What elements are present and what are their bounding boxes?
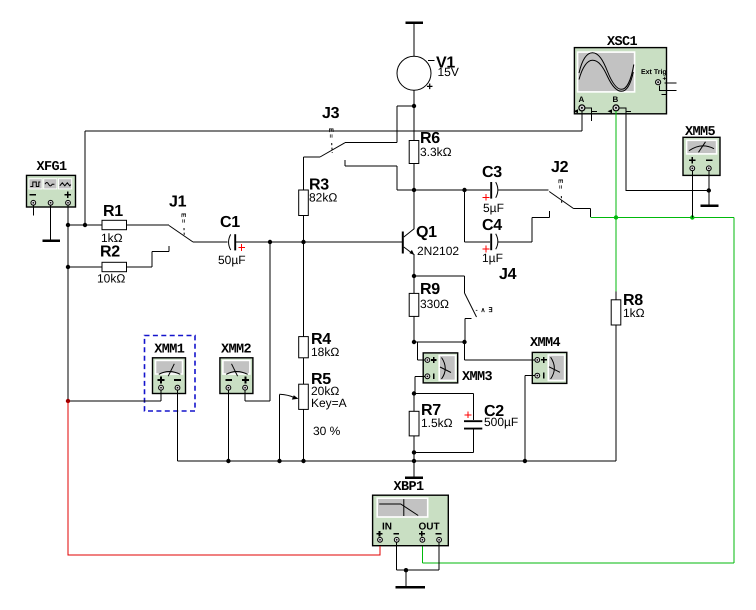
wire XBP1 IN minus to ground bbox=[397, 542, 439, 570]
wire R9 bottom to node bbox=[413, 316, 415, 342]
wire XMM3 plus to node342 bbox=[418, 342, 426, 360]
svg-text:J3: J3 bbox=[322, 105, 340, 122]
wire collector node down to Q1 collector bbox=[413, 190, 415, 229]
multimeter XMM3 bbox=[423, 353, 492, 385]
svg-text:+: + bbox=[427, 81, 433, 93]
multimeter XMM4 bbox=[530, 336, 567, 383]
wire scope A plus down to top bus bbox=[581, 111, 583, 131]
ground (XBP1) bbox=[396, 570, 426, 587]
multimeter XMM1 bbox=[153, 343, 186, 394]
node green junction XMM5 bbox=[690, 215, 694, 219]
wire XMM1 plus to left rail bbox=[68, 390, 161, 401]
ground (center bottom) bbox=[405, 461, 423, 478]
node R2 tap bbox=[66, 265, 70, 269]
svg-text:+: + bbox=[663, 76, 667, 83]
svg-text:J4: J4 bbox=[499, 266, 517, 283]
svg-text:XMM3: XMM3 bbox=[462, 370, 493, 385]
polarity C3 bbox=[483, 194, 490, 201]
oscilloscope XSC1 bbox=[574, 35, 677, 114]
svg-text:C4: C4 bbox=[482, 217, 502, 234]
polarity C1 bbox=[238, 244, 245, 251]
transistor Q1 2N2102 bbox=[402, 224, 460, 258]
wire R1 to J1 bbox=[127, 224, 170, 226]
selection box around XMM1 bbox=[145, 336, 196, 412]
wire green down to R8 bbox=[615, 218, 617, 292]
wire XFG1 minus stub bbox=[32, 205, 34, 216]
wire C4 right plate to step bbox=[498, 241, 533, 243]
wire scope B minus to XMM5 net bbox=[619, 108, 709, 191]
svg-text:OUT: OUT bbox=[419, 522, 440, 533]
node C4 branch tap bbox=[462, 188, 466, 192]
resistor R3 82k bbox=[299, 177, 338, 216]
resistor R6 3.3k bbox=[409, 130, 451, 164]
bode plotter XBP1 bbox=[373, 480, 449, 546]
svg-text:A: A bbox=[579, 95, 585, 104]
wire R4 to R5 bbox=[303, 358, 305, 384]
polarity C2 bbox=[465, 412, 472, 419]
wire C2 bottom to R7 bottom bbox=[414, 451, 474, 453]
wire C1 to Q1 base bbox=[235, 241, 402, 243]
node XMM4 bus bbox=[523, 459, 527, 463]
switch J1 bbox=[169, 194, 193, 243]
wire C3 to J2 bbox=[498, 189, 549, 191]
wire R7 bottom node to bus bbox=[413, 452, 415, 461]
wire XFG1 common to ground bbox=[50, 205, 52, 240]
svg-text:330Ω: 330Ω bbox=[420, 297, 449, 311]
node R7 bottom junction bbox=[412, 450, 416, 454]
wire top bus to scope A bbox=[85, 130, 582, 132]
node R5 bus bbox=[301, 459, 305, 463]
svg-text:82kΩ: 82kΩ bbox=[309, 191, 337, 205]
wire C4 left to collector net bbox=[465, 190, 491, 242]
svg-text:C3: C3 bbox=[482, 164, 502, 181]
svg-text:30 %: 30 % bbox=[313, 424, 341, 438]
wire XMM4 plus to node342 bbox=[465, 342, 535, 360]
svg-text:E =: E = bbox=[557, 179, 564, 189]
resistor R9 330 ohm bbox=[409, 276, 449, 316]
wire XMM5 minus to ground bbox=[708, 171, 710, 205]
svg-text:XMM1: XMM1 bbox=[154, 343, 185, 358]
capacitor C4 1uF bbox=[482, 217, 503, 265]
svg-text:C1: C1 bbox=[220, 214, 240, 231]
wire XMM2 plus up to C1 node bbox=[245, 242, 270, 401]
svg-text:18kΩ: 18kΩ bbox=[311, 345, 339, 359]
multimeter XMM2 bbox=[220, 343, 253, 394]
node VCC junction bbox=[412, 104, 416, 108]
polarity C4 bbox=[483, 246, 490, 253]
node XMM2 bus bbox=[226, 459, 230, 463]
wire J2 blade to green output bbox=[574, 209, 591, 217]
node base/R3 tap bbox=[301, 240, 305, 244]
red wire input to XBP1 bbox=[68, 402, 381, 556]
svg-text:10kΩ: 10kΩ bbox=[97, 272, 125, 286]
resistor R4 18k bbox=[299, 331, 340, 359]
resistor R2 10k bbox=[68, 244, 127, 286]
svg-text:50µF: 50µF bbox=[218, 253, 246, 267]
node emitter junction bbox=[412, 274, 416, 278]
svg-text:R9: R9 bbox=[420, 281, 440, 298]
capacitor C3 5uF bbox=[482, 164, 504, 215]
green wire bottom to XBP1 out bbox=[422, 546, 734, 563]
node green junction B bbox=[614, 215, 618, 219]
node XMM5 minus junction bbox=[707, 188, 711, 192]
node R1 tap bbox=[66, 223, 70, 227]
potentiometer R5 20k bbox=[280, 371, 347, 438]
node R9 bottom junction bbox=[412, 340, 416, 344]
wire C4 to J2 lower contact bbox=[532, 218, 550, 242]
svg-text:IN: IN bbox=[382, 522, 392, 533]
ground (top, above V1) bbox=[406, 23, 424, 57]
wire J3 to R3 bbox=[304, 157, 321, 190]
svg-text:Q1: Q1 bbox=[416, 224, 437, 241]
node collector junction bbox=[412, 188, 416, 192]
resistor R8 1k bbox=[611, 292, 644, 325]
wire J3 lower throw to collector node bbox=[345, 166, 414, 190]
wire J4 bottom contact down bbox=[464, 319, 466, 343]
svg-text:J1: J1 bbox=[169, 194, 187, 211]
node wiper bus bbox=[277, 459, 281, 463]
wire J1 to C1 bbox=[193, 241, 228, 243]
node bus center junction bbox=[412, 459, 416, 463]
wire scope A minus stub bbox=[585, 108, 592, 121]
svg-text:XFG1: XFG1 bbox=[37, 160, 68, 175]
wire J3 common to supply bbox=[345, 106, 414, 143]
wire left rail up to top bus bbox=[84, 131, 86, 225]
wire XMM4 minus to bus bbox=[525, 376, 535, 461]
wire XMM3 minus to R7 node bbox=[415, 376, 425, 393]
wire R7/C2 top bbox=[414, 393, 474, 395]
capacitor C2 500uF bbox=[464, 394, 518, 453]
wire R2 to J1 lower contact bbox=[127, 246, 170, 267]
svg-text:1kΩ: 1kΩ bbox=[623, 306, 645, 320]
function generator XFG1 bbox=[27, 160, 76, 207]
node top-bus tap bbox=[83, 223, 87, 227]
svg-text:XMM2: XMM2 bbox=[221, 343, 252, 358]
wire node342 horizontal bbox=[414, 341, 465, 343]
wire R6 bottom to collector node bbox=[413, 164, 415, 191]
node J4 bottom junction bbox=[462, 340, 466, 344]
source V1 15V bbox=[397, 55, 459, 94]
wire V1 to R6 bbox=[413, 90, 415, 140]
wire Q1 emitter down bbox=[413, 254, 415, 276]
svg-text:XBP1: XBP1 bbox=[394, 480, 425, 495]
switch J3 bbox=[320, 105, 345, 166]
svg-text:R1: R1 bbox=[103, 203, 123, 220]
svg-text:E =: E = bbox=[327, 128, 334, 138]
wire collector node to C3 bbox=[414, 189, 490, 191]
wire XMM1 minus to bus bbox=[177, 390, 179, 461]
svg-text:XMM4: XMM4 bbox=[530, 336, 561, 351]
ground (XFG1) bbox=[43, 240, 61, 243]
capacitor C1 50uF bbox=[218, 214, 246, 267]
svg-text:-∧∃: -∧∃ bbox=[476, 307, 496, 314]
svg-text:5µF: 5µF bbox=[483, 201, 504, 215]
svg-text:2N2102: 2N2102 bbox=[417, 244, 459, 258]
multimeter XMM5 bbox=[683, 125, 720, 175]
wire R5 wiper down to bus bbox=[279, 394, 281, 461]
resistor R1 1k bbox=[68, 203, 127, 245]
wire R3 bottom to base node bbox=[303, 216, 305, 243]
wire R8 bottom to bus bbox=[615, 325, 617, 461]
green output net from J2 bbox=[591, 217, 735, 219]
node left rail red tap bbox=[66, 399, 70, 403]
node XBP1 ground junction bbox=[404, 568, 408, 572]
svg-text:1µF: 1µF bbox=[482, 251, 503, 265]
bottom bus wire bbox=[178, 460, 617, 462]
wire scope B plus green down bbox=[615, 111, 617, 218]
wire XFG1 plus down left rail bbox=[67, 205, 69, 401]
resistor R7 1.5k bbox=[409, 394, 452, 436]
svg-text:J2: J2 bbox=[551, 159, 569, 176]
wire XMM2 minus to bus bbox=[227, 390, 229, 461]
green wire right edge down bbox=[733, 218, 735, 564]
wire base node down to R4 bbox=[303, 242, 305, 337]
wire emitter node across to J4 bbox=[414, 276, 465, 293]
wire R5 bottom to bus bbox=[303, 409, 305, 461]
svg-text:E =: E = bbox=[180, 213, 187, 223]
svg-text:1.5kΩ: 1.5kΩ bbox=[421, 416, 453, 430]
svg-text:R2: R2 bbox=[100, 244, 120, 261]
svg-text:500µF: 500µF bbox=[484, 415, 518, 429]
svg-text:3.3kΩ: 3.3kΩ bbox=[420, 145, 452, 159]
switch J4 bbox=[465, 266, 517, 319]
node XMM2 tap bbox=[268, 240, 272, 244]
ground (XMM5) bbox=[700, 205, 718, 208]
wire XBP1 OUT minus to ground bbox=[438, 542, 440, 570]
svg-text:15V: 15V bbox=[438, 65, 459, 79]
node R7 top junction bbox=[412, 391, 416, 395]
switch J2 bbox=[549, 159, 573, 218]
svg-text:B: B bbox=[613, 95, 619, 104]
svg-text:Key=A: Key=A bbox=[311, 396, 347, 410]
wire XMM5 plus down to green net bbox=[691, 171, 693, 218]
wire R7 bottom bbox=[413, 436, 415, 453]
